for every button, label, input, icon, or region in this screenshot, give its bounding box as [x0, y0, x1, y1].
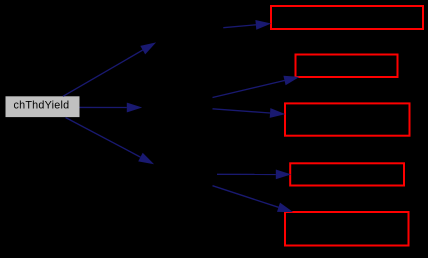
- box4 (truncated callee): [290, 163, 404, 185]
- box2 (truncated callee): [296, 55, 398, 78]
- edge chThdYield->nodeC: [66, 118, 155, 165]
- edge nodeC->box5: [213, 186, 294, 212]
- node chThdYield (current function, grey box): [6, 96, 80, 117]
- edge chThdYield->nodeA: [63, 42, 156, 96]
- box1 (truncated callee): [271, 6, 423, 29]
- box3 (truncated callee): [285, 103, 410, 135]
- box5 (truncated callee): [285, 212, 409, 246]
- edge nodeB->box3: [213, 108, 286, 118]
- svg-text:chThdYield: chThdYield: [13, 100, 69, 112]
- edge nodeA->box1: [223, 20, 271, 30]
- edge chThdYield->nodeB: [80, 103, 143, 113]
- edge nodeB->box2: [213, 76, 300, 98]
- edge nodeC->box4: [217, 170, 291, 180]
